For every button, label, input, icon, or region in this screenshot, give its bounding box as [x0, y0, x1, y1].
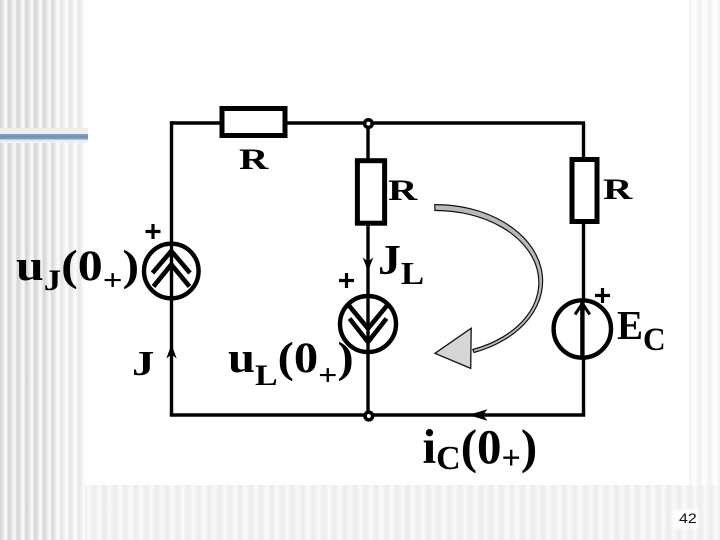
rotation arrow head — [435, 328, 471, 368]
wire bottom (return path) — [170, 413, 585, 416]
slide number 42 — [679, 512, 697, 526]
node B (bottom junction) — [365, 412, 373, 420]
label R1 — [239, 145, 268, 175]
EMF source EC (right, circle with up arrow) — [554, 300, 611, 357]
wire left branch vertical — [170, 121, 173, 415]
label R3 — [603, 175, 632, 205]
rotation arrow (gray curved arc) — [435, 205, 543, 353]
label JL — [378, 240, 424, 282]
label EC — [617, 305, 666, 346]
current arrow J (up, on left wire) — [166, 345, 176, 359]
left striped column (stronger stripes) — [0, 0, 85, 540]
label iC(0+) — [423, 422, 538, 471]
decorative blue rule — [0, 128, 88, 143]
resistor R3 (right) — [572, 160, 597, 222]
right faint striped strip — [689, 0, 720, 485]
plus sign (right source) — [595, 288, 610, 303]
current arrow iC (left, on bottom wire) — [469, 409, 488, 421]
current source J (left, circle with double chevron up) — [144, 244, 199, 299]
white content panel — [85, 0, 689, 485]
current source JL (middle, circle with double chevron down) — [340, 296, 396, 352]
label uL(0+) — [228, 337, 354, 380]
slide number background — [675, 511, 697, 527]
label uJ(0+) — [16, 245, 139, 288]
plus sign (middle source) — [339, 273, 354, 288]
label J — [132, 346, 154, 381]
plus sign (left source) — [146, 224, 161, 239]
wire middle branch vertical — [366, 123, 369, 415]
wire top (node A to node B horizontal) — [170, 121, 585, 124]
wire right branch vertical — [582, 123, 585, 415]
resistor R1 (top) — [222, 109, 285, 136]
current arrow JL (down, on middle wire) — [363, 258, 373, 272]
resistor R2 (middle) — [357, 161, 384, 224]
label R2 — [388, 176, 417, 206]
node A (top junction) — [365, 120, 373, 128]
